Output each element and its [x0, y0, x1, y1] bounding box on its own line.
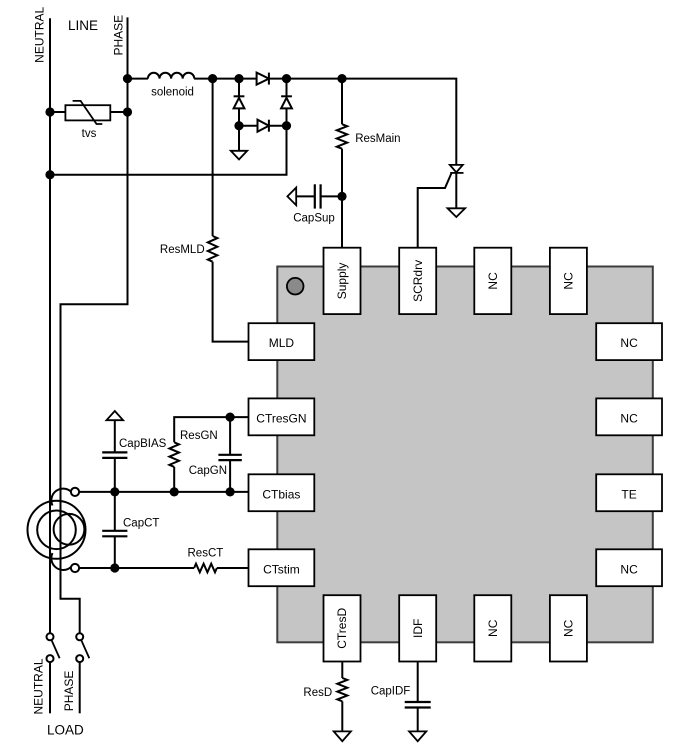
switch phase blade — [81, 640, 89, 658]
arrow CapBIAS off-page (up) — [107, 411, 124, 420]
junction bridge bottom-left — [234, 121, 243, 130]
junction ResMain top — [337, 74, 346, 83]
pin CTstim — [249, 549, 315, 586]
wire neutral to load — [49, 662, 51, 713]
wire CapSup left lead — [296, 195, 315, 197]
junction CapGN CTbias — [226, 487, 235, 496]
svg-text:NEUTRAL: NEUTRAL — [32, 658, 46, 714]
svg-text:Supply: Supply — [335, 263, 349, 300]
wire ResGN bottom lead — [173, 467, 175, 492]
pin Supply — [324, 248, 361, 314]
label CapBIAS — [119, 438, 167, 450]
junction phase top line — [123, 74, 132, 83]
wire CapGN bottom lead — [229, 460, 231, 492]
diode D1 top of bridge — [257, 73, 269, 85]
pin SCRdrv — [399, 248, 436, 314]
label solenoid — [151, 86, 194, 98]
svg-text:CTresD: CTresD — [335, 608, 349, 649]
svg-text:LINE: LINE — [68, 18, 98, 33]
label ResMain — [355, 133, 400, 145]
svg-text:TE: TE — [621, 487, 636, 501]
svg-text:ResCT: ResCT — [188, 548, 224, 560]
pin IDF — [399, 595, 436, 661]
svg-text:PHASE: PHASE — [62, 671, 76, 712]
svg-text:CapBIAS: CapBIAS — [119, 438, 167, 450]
label CapSup — [293, 213, 335, 225]
label CapIDF — [371, 686, 411, 698]
svg-text:NC: NC — [620, 336, 638, 350]
ground ResD — [334, 731, 351, 741]
svg-text:CapIDF: CapIDF — [371, 686, 411, 698]
svg-text:CTstim: CTstim — [263, 562, 300, 576]
wire CTresGN net — [174, 417, 248, 442]
junction tvs phase — [123, 107, 132, 116]
wire bridge ground stub — [238, 126, 240, 151]
wire bridge lower rail left — [239, 125, 258, 127]
thyristor SCR — [450, 165, 464, 173]
label CapCT — [123, 518, 159, 530]
resistor ResMLD — [208, 236, 218, 262]
pin NC right2 — [596, 398, 662, 435]
label NEUTRAL bottom — [32, 658, 46, 714]
svg-text:CapGN: CapGN — [189, 465, 227, 477]
junction ResGN CTbias — [170, 487, 179, 496]
diode D2 bridge left (pointing up) — [234, 96, 245, 125]
wire CTbias net — [79, 491, 248, 493]
junction CapCT CTstim — [110, 563, 119, 572]
pin NC top3 — [474, 248, 511, 314]
svg-text:tvs: tvs — [82, 128, 97, 140]
pin CTbias — [249, 474, 315, 511]
pin NC top4 — [550, 248, 587, 314]
current transformer CT core — [28, 501, 86, 559]
capacitor CapIDF — [405, 702, 431, 708]
svg-text:ResMain: ResMain — [355, 133, 400, 145]
ground CapIDF — [409, 731, 426, 741]
junction CapBIAS CTbias — [110, 487, 119, 496]
svg-text:NC: NC — [486, 619, 500, 637]
resistor ResD — [337, 678, 347, 701]
wire NEUTRAL vertical rail — [49, 18, 51, 633]
label LINE — [68, 18, 98, 33]
wire CTresD to ResD — [341, 662, 343, 679]
capacitor CapGN — [218, 455, 241, 460]
svg-text:ResGN: ResGN — [180, 430, 218, 442]
switch neutral contact top — [47, 633, 54, 640]
label tvs — [82, 128, 97, 140]
label LOAD — [47, 723, 84, 738]
inductor solenoid — [148, 73, 194, 79]
pin CTresGN — [249, 398, 315, 435]
label PHASE top — [112, 15, 126, 56]
wire CapBIAS top lead — [114, 420, 116, 452]
svg-text:NEUTRAL: NEUTRAL — [33, 6, 47, 62]
resistor ResGN — [169, 442, 179, 467]
wire tvs right lead — [110, 111, 127, 113]
wire bridge left vertical upper — [238, 79, 240, 97]
wire CTstim net left — [79, 567, 194, 569]
svg-text:ResMLD: ResMLD — [160, 244, 205, 256]
junction solenoid ResMLD — [208, 74, 217, 83]
wire ResMLD to MLD pin — [213, 262, 249, 342]
switch phase contact bottom — [76, 655, 83, 662]
capacitor CapCT — [102, 531, 127, 537]
wire solenoid to bridge — [194, 78, 257, 80]
pin CTresD — [324, 595, 361, 661]
terminal CT secondary bottom — [71, 564, 79, 572]
wire top rail bridge to ResMain to SCR corner — [269, 79, 456, 165]
wire bridge return to neutral — [50, 126, 287, 175]
svg-text:CapSup: CapSup — [293, 213, 335, 225]
wire ResCT to CTstim pin — [217, 567, 249, 569]
wire SCR gate to SCRdrv pin — [418, 174, 452, 248]
label NEUTRAL top — [33, 6, 47, 62]
pin NC bottom3 — [474, 595, 511, 661]
svg-text:NC: NC — [562, 272, 576, 290]
diode D4 bridge bottom — [258, 120, 287, 132]
svg-text:ResD: ResD — [303, 687, 332, 699]
svg-text:NC: NC — [620, 411, 638, 425]
terminal CT secondary top — [71, 488, 79, 496]
varistor tvs — [65, 101, 110, 124]
wire bridge right vertical upper — [286, 79, 288, 97]
svg-text:CapCT: CapCT — [123, 518, 159, 530]
wire CapCT top lead — [114, 492, 116, 531]
junction bridge top-right — [282, 74, 291, 83]
resistor ResCT — [194, 564, 217, 573]
wire CapGN top lead — [229, 417, 231, 455]
svg-text:CTresGN: CTresGN — [256, 411, 306, 425]
ground bridge — [231, 151, 247, 160]
label CapGN — [189, 465, 227, 477]
pin NC right4 — [596, 549, 662, 586]
svg-text:SCRdrv: SCRdrv — [411, 260, 425, 302]
switch neutral contact bottom — [47, 655, 54, 662]
arrow CapSup off-page (left) — [287, 188, 296, 206]
svg-text:NC: NC — [562, 619, 576, 637]
junction CapGN CTresGN — [226, 413, 235, 422]
wire PHASE vertical rail with jogs — [61, 17, 128, 633]
pin NC right1 — [596, 323, 662, 360]
wire phase to load — [79, 662, 81, 713]
wire top line solenoid left segment — [128, 78, 148, 80]
wire ResD to ground — [341, 701, 343, 731]
pin TE — [596, 474, 662, 511]
diode D3 bridge right (pointing up) — [281, 96, 292, 125]
label ResD — [303, 687, 332, 699]
label PHASE bottom — [62, 671, 76, 712]
svg-text:CTbias: CTbias — [262, 487, 300, 501]
arrow SCR cathode off-page (down) — [448, 208, 466, 217]
capacitor CapSup — [315, 184, 321, 208]
junction bridge bottom-right — [282, 121, 291, 130]
svg-text:IDF: IDF — [411, 619, 425, 638]
current transformer CT winding — [51, 489, 84, 570]
wire CapCT bottom lead — [114, 536, 116, 568]
junction tvs neutral — [45, 107, 54, 116]
wire CapBIAS bottom lead — [114, 458, 116, 492]
junction bridge top-left — [234, 74, 243, 83]
svg-text:NC: NC — [620, 562, 638, 576]
label ResCT — [188, 548, 224, 560]
switch phase contact top — [76, 633, 83, 640]
switch neutral blade — [52, 640, 60, 658]
wire SCR cathode — [455, 173, 457, 208]
wire ResMLD top segment — [212, 79, 214, 236]
wire IDF to CapIDF — [417, 662, 419, 703]
svg-text:solenoid: solenoid — [151, 86, 194, 98]
label ResMLD — [160, 244, 205, 256]
svg-text:MLD: MLD — [269, 336, 295, 350]
svg-text:NC: NC — [486, 272, 500, 290]
resistor ResMain — [337, 124, 347, 149]
svg-text:LOAD: LOAD — [47, 723, 84, 738]
wire CapIDF to ground — [417, 708, 419, 732]
label ResGN — [180, 430, 218, 442]
capacitor CapBIAS — [102, 452, 127, 458]
pin MLD — [249, 323, 315, 360]
wire tvs left lead — [50, 111, 65, 113]
wire CapSup right lead — [321, 195, 342, 197]
junction CapSup Supply — [337, 192, 346, 201]
IC pin-1 marker — [287, 278, 304, 295]
pin NC bottom4 — [550, 595, 587, 661]
wire ResMain top segment — [341, 79, 343, 125]
svg-text:PHASE: PHASE — [112, 15, 126, 56]
junction neutral return — [45, 170, 54, 179]
wire ResMain to Supply pin — [341, 149, 343, 248]
IC U1 body — [277, 267, 653, 643]
